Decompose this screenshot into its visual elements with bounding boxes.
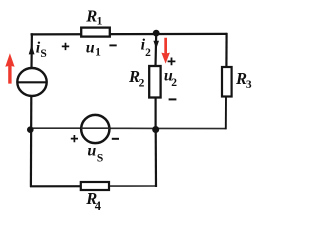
node dot left (uS left junction) (27, 126, 34, 133)
wire right vertical lower (225, 97, 227, 130)
svg-text:2: 2 (145, 47, 151, 59)
svg-text:u: u (87, 143, 96, 160)
arrowhead i2 on wire (down) (153, 41, 159, 49)
svg-text:S: S (97, 153, 103, 165)
resistor R1 body (81, 28, 110, 37)
svg-text:u: u (86, 40, 95, 57)
svg-text:3: 3 (246, 79, 252, 91)
wire bottom (30, 185, 110, 187)
voltage source uS circle (81, 115, 109, 143)
svg-text:R: R (85, 6, 97, 25)
svg-text:S: S (40, 48, 46, 60)
plus sign u2 (168, 58, 176, 66)
resistor R2 body (149, 66, 160, 98)
wire top (31, 33, 228, 36)
svg-text:2: 2 (139, 78, 145, 90)
wire middle between uS and node (110, 127, 157, 129)
current source iS circle (17, 68, 46, 96)
plus sign uS (71, 135, 78, 142)
wire R2 branch lower (155, 98, 157, 130)
minus sign uS (112, 138, 119, 140)
svg-text:1: 1 (97, 15, 103, 27)
minus sign u1 (109, 44, 116, 46)
arrowhead iS on wire (up) (29, 45, 35, 55)
resistor R4 body (81, 182, 109, 190)
wire middle horizontal right (156, 127, 226, 129)
wire left vertical lower (30, 96, 33, 187)
svg-text:4: 4 (95, 199, 102, 213)
current source bar (17, 81, 46, 83)
node dot middle (R2 bottom junction) (152, 126, 159, 133)
wire R2 branch upper (154, 34, 157, 67)
minus sign u2 (169, 98, 177, 100)
wire bottom right of R4 (110, 185, 157, 187)
svg-text:2: 2 (171, 77, 177, 89)
plus sign u1 (62, 43, 69, 50)
node dot top (R2 top junction) (153, 30, 160, 37)
red arrow left (up) (5, 53, 14, 83)
red arrow right (down) (161, 38, 170, 64)
svg-text:1: 1 (95, 47, 101, 59)
resistor R3 body (222, 67, 232, 97)
wire right vertical (bottom of R4 loop up to middle node) (155, 129, 158, 187)
wire middle horizontal (31, 127, 82, 129)
wire right vertical upper (225, 33, 227, 68)
wire left vertical upper (30, 33, 33, 68)
voltage source bar (wire through) (81, 127, 110, 129)
